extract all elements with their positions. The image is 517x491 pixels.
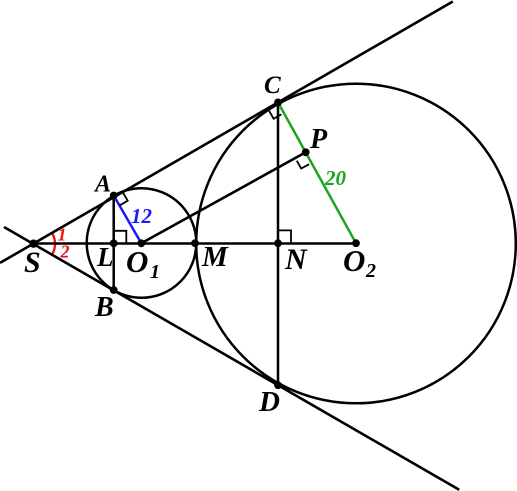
svg-text:N: N — [284, 243, 308, 276]
angle arc at S (angles 1 and 2, red) — [53, 234, 55, 253]
svg-text:L: L — [96, 242, 114, 272]
point A — [110, 192, 118, 200]
big circle O2 — [196, 84, 516, 404]
right angle mark at A — [120, 193, 128, 206]
right angle mark at C — [269, 111, 281, 119]
point P — [302, 148, 310, 156]
svg-text:M: M — [201, 241, 229, 273]
point L — [110, 239, 118, 247]
radius C-O2 (green, length 20) — [278, 102, 356, 243]
right angle mark at L — [114, 231, 127, 244]
small circle O1 — [87, 188, 197, 298]
center line S-L-O1-M-N-O2 — [34, 242, 357, 245]
point O2 — [352, 239, 360, 247]
right angle mark at N — [278, 230, 291, 243]
right angle mark at P — [297, 161, 309, 169]
svg-text:1: 1 — [150, 261, 160, 283]
point S — [29, 240, 37, 248]
point O1 — [137, 239, 145, 247]
svg-text:2: 2 — [365, 260, 376, 282]
svg-text:2: 2 — [60, 242, 70, 262]
svg-text:D: D — [258, 386, 280, 418]
segment O1-P — [141, 152, 305, 243]
svg-text:B: B — [94, 292, 114, 323]
point N — [274, 239, 282, 247]
point D — [274, 381, 282, 389]
radius A-O1 (blue, length 12) — [114, 196, 142, 244]
svg-text:P: P — [309, 124, 328, 155]
tangent line S-A-C (top) — [0, 2, 453, 263]
point M — [191, 239, 199, 247]
point B — [110, 286, 118, 294]
svg-text:A: A — [93, 172, 111, 198]
svg-text:O: O — [343, 243, 365, 278]
svg-text:12: 12 — [131, 204, 153, 228]
chord A-B through L — [112, 196, 115, 291]
chord C-D through N — [277, 102, 280, 385]
tangent line S-B-D (bottom) — [4, 227, 459, 490]
svg-text:C: C — [264, 72, 281, 99]
point C — [274, 99, 282, 107]
svg-text:O: O — [126, 244, 148, 279]
svg-text:S: S — [24, 246, 41, 279]
svg-text:20: 20 — [324, 166, 347, 190]
